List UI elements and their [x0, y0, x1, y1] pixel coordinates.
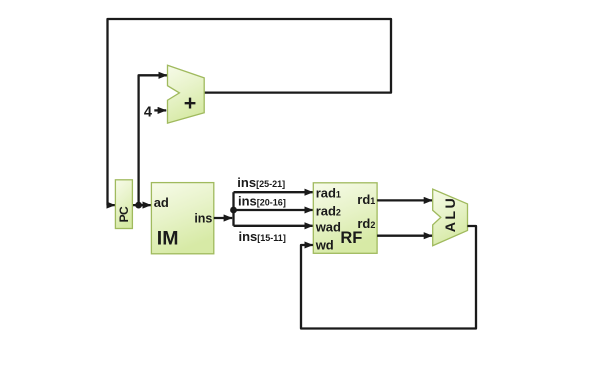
svg-text:ALU: ALU	[443, 196, 459, 232]
wire adder output feedback loop to PC input	[108, 19, 392, 205]
wire PC output to IM ad input	[132, 204, 151, 206]
block PC	[115, 180, 132, 229]
svg-text:ins[25-21]: ins[25-21]	[237, 175, 285, 190]
wire ins bus vertical	[232, 192, 234, 226]
svg-text:wad: wad	[315, 219, 341, 234]
svg-text:+: +	[184, 91, 197, 115]
block RF	[313, 183, 377, 254]
svg-text:wd: wd	[315, 238, 334, 253]
node junction on ins bus	[230, 207, 237, 214]
wire ins[25-21] branch to RF rad1	[234, 191, 313, 193]
wire RF rd2 to ALU input	[377, 235, 432, 237]
svg-text:ins[15-11]: ins[15-11]	[239, 229, 286, 244]
svg-text:IM: IM	[157, 227, 179, 249]
svg-text:ins[20-16]: ins[20-16]	[238, 193, 286, 208]
svg-text:4: 4	[144, 104, 152, 120]
block IM	[151, 183, 213, 254]
wire ALU output feedback to RF wd input	[301, 226, 476, 329]
wire RF rd1 to ALU input	[377, 199, 432, 201]
ALU	[433, 189, 468, 246]
svg-text:PC: PC	[117, 206, 131, 222]
adder	[168, 65, 205, 123]
wire constant 4 to adder input	[154, 109, 166, 111]
node junction on PC output	[135, 202, 142, 209]
wire IM ins output to bus	[214, 217, 232, 219]
svg-text:RF: RF	[340, 229, 362, 247]
wire ins[20-16] branch to RF rad2	[234, 209, 313, 211]
svg-text:ins: ins	[194, 212, 212, 226]
wire ins[15-11] branch to RF wad	[234, 225, 313, 227]
wire PC output branch up to adder input	[139, 75, 168, 205]
svg-text:ad: ad	[154, 195, 169, 210]
